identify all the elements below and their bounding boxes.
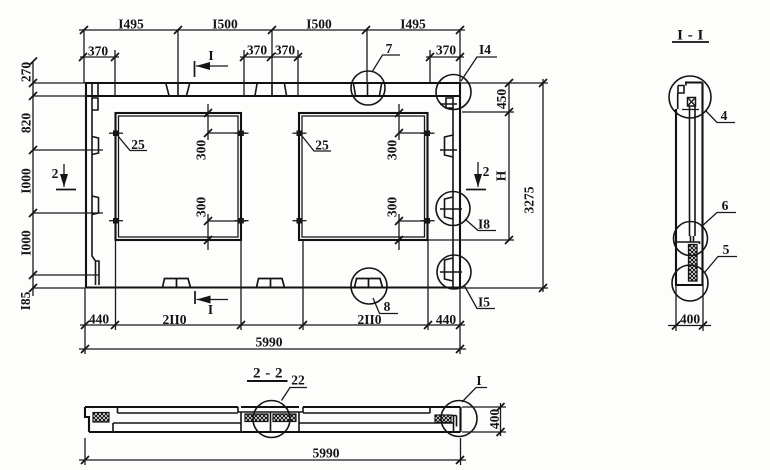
- top chord rib lines left end: [92, 83, 98, 96]
- bottom dim 5990: [79, 288, 466, 354]
- svg-text:370: 370: [275, 43, 296, 58]
- panel left outer face: [85, 83, 87, 288]
- left extension lines: [33, 82, 85, 84]
- svg-text:5: 5: [723, 242, 730, 257]
- svg-text:3275: 3275: [522, 186, 537, 213]
- label 25 opening 1: [118, 136, 147, 152]
- svg-text:I: I: [476, 373, 481, 388]
- svg-text:4: 4: [721, 108, 728, 123]
- leader 22: [282, 388, 308, 401]
- left end insert plate: [93, 413, 109, 423]
- dim 400 below: [668, 285, 711, 331]
- svg-text:370: 370: [436, 43, 457, 58]
- right edge key 2 (detail 18): [445, 197, 454, 219]
- title underline: [672, 41, 709, 43]
- svg-text:300: 300: [385, 140, 400, 161]
- dim 300 bottom opening 2: [385, 197, 432, 250]
- dim 400 right of section: [462, 403, 506, 436]
- bottom edge: [675, 284, 704, 286]
- left face: [675, 109, 677, 285]
- svg-text:300: 300: [385, 197, 400, 218]
- left edge key 2: [92, 196, 99, 215]
- joint 1 line: [177, 83, 179, 96]
- leader label 6: [701, 198, 736, 227]
- title underline: [247, 380, 288, 382]
- extension joint3 x=367: [366, 30, 368, 83]
- detail circle I right: [441, 401, 477, 437]
- bottom-left corner key: [92, 256, 99, 285]
- joint 1 right chamfer: [187, 84, 190, 96]
- svg-text:2II0: 2II0: [357, 312, 381, 327]
- svg-text:400: 400: [487, 409, 502, 430]
- panel bottom edge: [86, 286, 460, 288]
- detail circle 7: [351, 71, 385, 105]
- detail circle 18: [436, 192, 470, 226]
- panel right inner face: [452, 96, 454, 288]
- svg-text:H: H: [494, 170, 509, 181]
- opening 2 outer frame: [299, 113, 428, 240]
- anchor plates opening 2: [293, 131, 435, 224]
- label 25 opening 2: [302, 136, 331, 153]
- svg-text:5990: 5990: [256, 335, 283, 350]
- rib end tongue (detail 6): [676, 236, 700, 244]
- right edge key 3 tick: [440, 271, 462, 273]
- right edge key 1: [445, 135, 454, 157]
- svg-text:400: 400: [680, 312, 701, 327]
- section mark I bottom: [195, 291, 228, 317]
- right edge key 3 (detail 15): [445, 258, 454, 281]
- dim 300 top opening 2: [385, 104, 432, 160]
- svg-text:2II0: 2II0: [162, 312, 186, 327]
- middle joint block: [238, 407, 303, 432]
- detail circle 8: [351, 268, 387, 304]
- detail circle 6: [674, 222, 708, 256]
- extension right end x=460: [459, 30, 461, 83]
- svg-text:370: 370: [247, 43, 268, 58]
- right face: [701, 83, 703, 286]
- svg-text:I000: I000: [19, 168, 34, 194]
- inner flange line: [118, 412, 431, 414]
- svg-text:I4: I4: [479, 42, 491, 57]
- dim 5990 below section: [79, 438, 466, 465]
- mid web line: [113, 422, 454, 424]
- right end insert plate: [435, 415, 451, 423]
- svg-text:2: 2: [483, 164, 490, 179]
- top-right corner key (detail 14): [446, 98, 453, 108]
- svg-text:440: 440: [436, 312, 457, 327]
- top-left corner key: [92, 98, 98, 110]
- svg-text:450: 450: [494, 89, 509, 110]
- anchor plates opening 1: [109, 131, 249, 224]
- left end steps: [113, 407, 118, 432]
- leader label 18: [465, 217, 496, 232]
- svg-text:I000: I000: [19, 230, 34, 256]
- dim 370 left: [79, 44, 119, 97]
- extension left end x=84: [83, 30, 85, 83]
- leader label 7: [372, 41, 400, 72]
- svg-text:370: 370: [88, 44, 109, 59]
- extension joint2 x=272: [271, 30, 273, 83]
- top dimension line 1495/1500/1500/1495: [79, 29, 465, 31]
- svg-text:25: 25: [131, 137, 145, 152]
- opening 1 inner frame: [119, 116, 239, 237]
- left end profile: [85, 407, 89, 432]
- right edge key 1 tick: [440, 149, 457, 151]
- section mark 2 left: [52, 164, 76, 190]
- svg-text:8: 8: [384, 299, 391, 314]
- svg-text:I500: I500: [306, 17, 332, 32]
- top-right corner key tick: [440, 103, 457, 105]
- svg-text:25: 25: [315, 138, 329, 153]
- leader label I: [462, 373, 487, 402]
- detail circle 4: [669, 76, 711, 118]
- svg-text:440: 440: [89, 312, 110, 327]
- svg-text:22: 22: [291, 373, 305, 388]
- bottom dim line 440/2110/2110/440: [80, 240, 465, 330]
- detail circle 2-2 middle: [253, 401, 290, 438]
- right dimension 450 / H: [428, 79, 514, 244]
- left edge key 1: [92, 137, 99, 155]
- detail circle 15: [437, 255, 471, 289]
- svg-text:7: 7: [386, 41, 393, 56]
- svg-text:5990: 5990: [313, 446, 340, 461]
- joint 1 left chamfer: [166, 84, 169, 96]
- foot 2 on bottom chord: [257, 279, 285, 288]
- bottom surface: [89, 431, 461, 433]
- svg-text:I: I: [208, 302, 213, 317]
- opening 1 outer frame: [116, 113, 242, 240]
- foot 3 on bottom chord (detail 8): [355, 279, 383, 288]
- leader label 8: [373, 298, 398, 314]
- middle joint insert plates: [245, 414, 268, 422]
- panel left inner face: [91, 96, 93, 257]
- joint 2 right chamfer: [285, 84, 287, 96]
- svg-text:270: 270: [19, 62, 34, 83]
- leader label 5: [705, 242, 737, 272]
- left dimension column: [18, 58, 103, 311]
- leader label 4: [706, 108, 735, 123]
- svg-text:I500: I500: [212, 17, 238, 32]
- svg-text:300: 300: [194, 197, 209, 218]
- svg-text:I85: I85: [18, 291, 33, 310]
- dim 300 bottom opening 1: [194, 197, 247, 250]
- detail circle 5: [672, 265, 708, 301]
- joint 2 left chamfer: [255, 84, 257, 96]
- right end profile: [459, 407, 461, 432]
- rib left line: [689, 106, 691, 236]
- svg-text:2 - 2: 2 - 2: [253, 366, 283, 382]
- panel top chord top edge: [85, 82, 460, 84]
- panel right outer face: [459, 83, 461, 288]
- section mark 2 right: [466, 162, 490, 190]
- leader label 15: [464, 285, 495, 310]
- joint 3 line (detail 7): [367, 83, 369, 96]
- bottom keyway grout (detail 5): [689, 245, 698, 282]
- dim 300 top opening 1: [194, 104, 247, 160]
- svg-text:I495: I495: [118, 17, 144, 32]
- detail circle 14: [436, 75, 471, 110]
- top embedded plate (detail 4): [688, 98, 696, 107]
- opening 2 inner frame: [302, 116, 425, 237]
- top surface: [85, 406, 461, 408]
- svg-text:2: 2: [52, 166, 59, 181]
- svg-text:820: 820: [19, 113, 34, 134]
- right end steps: [430, 407, 457, 432]
- right dimension 3275: [460, 79, 548, 292]
- foot 1 on bottom chord: [163, 279, 191, 288]
- rib shoulder line: [682, 109, 699, 111]
- joint 2 line: [271, 83, 273, 96]
- svg-text:6: 6: [722, 198, 729, 213]
- svg-text:I5: I5: [478, 295, 490, 310]
- panel top chord bottom edge: [85, 95, 460, 97]
- joint 3 left chamfer: [354, 84, 356, 96]
- joint 3 right chamfer: [380, 84, 382, 96]
- ticks top dim: [80, 26, 464, 34]
- top edge: [685, 81, 703, 83]
- extension joint1 x=178: [177, 30, 179, 83]
- svg-text:I495: I495: [400, 17, 426, 32]
- top corner step: [678, 83, 686, 110]
- svg-text:300: 300: [194, 140, 209, 161]
- section mark I top: [195, 48, 229, 77]
- leader label 14: [461, 42, 497, 81]
- dim 370 right: [426, 43, 464, 83]
- dim 370 370 middle: [240, 43, 302, 97]
- rib right line: [694, 106, 696, 236]
- right edge key 2 tick: [440, 208, 462, 210]
- svg-text:I: I: [208, 48, 213, 63]
- svg-text:I8: I8: [478, 217, 490, 232]
